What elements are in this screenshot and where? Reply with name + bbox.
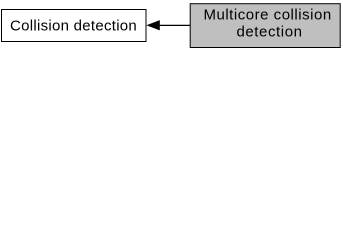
svg-text:Multicore collision: Multicore collision	[203, 7, 331, 24]
node box: Multicore collision detection (current, grey)	[190, 4, 340, 48]
svg-text:Collision detection: Collision detection	[10, 18, 137, 35]
background	[0, 0, 343, 51]
svg-text:detection: detection	[236, 23, 302, 40]
edge wire	[159, 24, 190, 26]
node box: Collision detection	[2, 10, 147, 42]
edge arrowhead	[147, 21, 159, 30]
